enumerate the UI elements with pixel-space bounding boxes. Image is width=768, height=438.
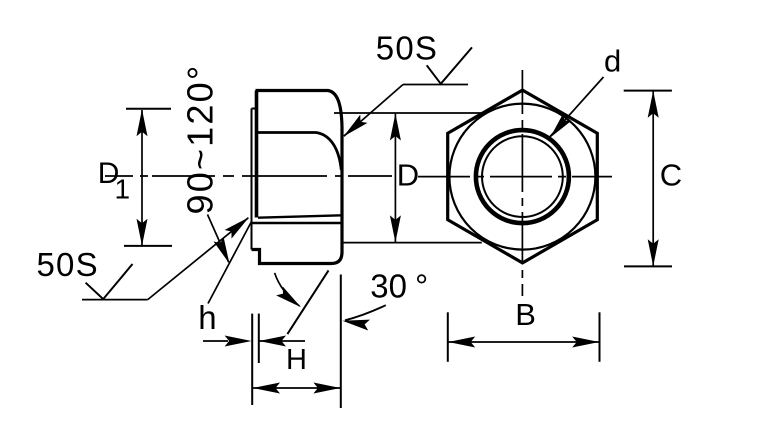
svg-text:C: C: [660, 157, 682, 192]
svg-text:1: 1: [115, 174, 131, 205]
svg-text:90~120°: 90~120°: [180, 64, 221, 215]
svg-text:h: h: [198, 299, 216, 336]
svg-text:H: H: [286, 344, 307, 376]
svg-text:D: D: [397, 158, 419, 193]
svg-text:d: d: [604, 44, 621, 79]
svg-text:30: 30: [370, 268, 407, 305]
svg-text:°: °: [415, 268, 428, 305]
svg-text:50S: 50S: [37, 246, 99, 283]
svg-text:B: B: [515, 297, 536, 332]
svg-text:50S: 50S: [376, 30, 438, 67]
